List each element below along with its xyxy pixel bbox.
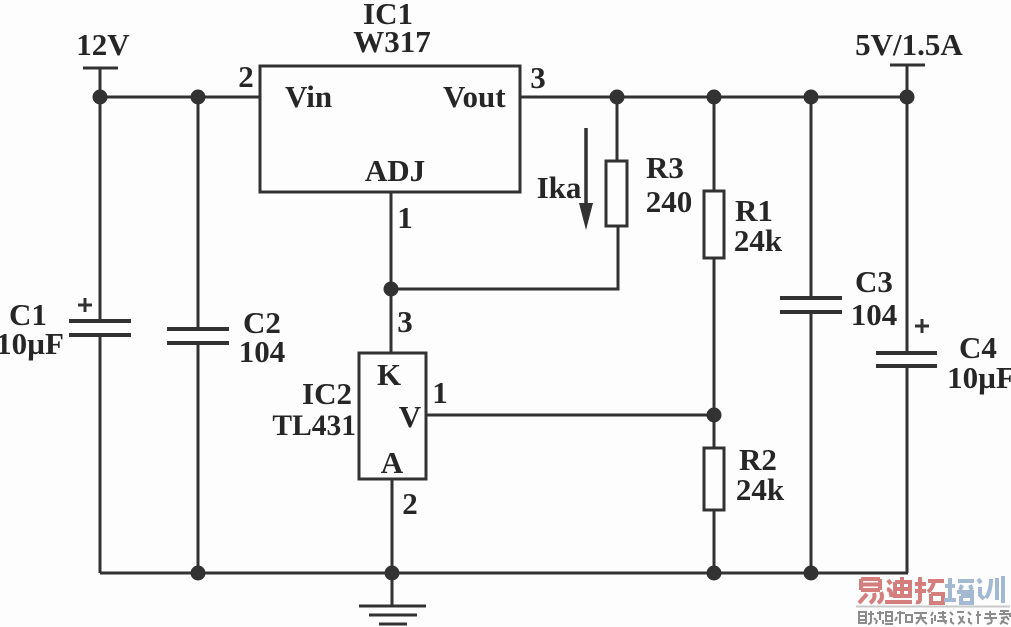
wire V pin to divider node	[426, 414, 714, 417]
label C2	[243, 305, 281, 340]
wire ADJ node to R3 bottom	[391, 226, 618, 289]
svg-text:104: 104	[239, 334, 286, 369]
label Ika	[537, 170, 582, 205]
wire A pin to ground rail	[391, 479, 394, 573]
label IC2	[302, 376, 352, 411]
watermark tagline zhuan	[984, 611, 997, 624]
resistor R2	[704, 415, 724, 573]
watermark logo	[856, 576, 1010, 624]
watermark tagline she2	[950, 612, 965, 624]
label 12V	[76, 27, 130, 62]
wire K pin	[390, 289, 393, 353]
pin number 2	[238, 59, 254, 94]
junction R2 ground	[707, 566, 722, 581]
label C1	[9, 297, 47, 332]
svg-text:12V: 12V	[76, 27, 130, 62]
svg-text:W317: W317	[353, 24, 431, 59]
label 10uF	[0, 326, 64, 361]
polarity + of C1	[78, 298, 92, 312]
wire ADJ pin	[390, 192, 393, 289]
watermark tagline ji	[968, 611, 981, 624]
ground	[359, 573, 426, 624]
wire C1 lower	[99, 337, 102, 573]
svg-text:TL431: TL431	[272, 410, 356, 442]
label 24k of R2	[736, 472, 785, 507]
label R2	[739, 442, 777, 477]
pin label V	[399, 399, 422, 434]
wire C4 branch upper	[906, 97, 909, 351]
node 5V output terminal	[890, 65, 925, 97]
watermark tagline he	[895, 611, 912, 624]
label IC1	[363, 0, 413, 31]
pin label Vout	[443, 79, 506, 114]
capacitor C2	[167, 329, 229, 343]
pin number 1 of IC1	[397, 200, 413, 235]
label 24k of R1	[734, 223, 783, 258]
svg-text:ADJ: ADJ	[365, 153, 425, 188]
polarity + of C4	[915, 319, 929, 333]
junction C1 branch	[93, 90, 108, 105]
svg-text:5V/1.5A: 5V/1.5A	[855, 27, 963, 62]
pin label Vin	[285, 79, 332, 114]
svg-text:24k: 24k	[734, 223, 783, 258]
svg-text:K: K	[377, 357, 401, 392]
label 5V/1.5A	[855, 27, 963, 62]
junction output terminal	[900, 90, 915, 105]
svg-text:V: V	[399, 399, 422, 434]
watermark char di (red)	[885, 577, 912, 602]
pin number 3 of IC2	[397, 304, 413, 339]
wire C3 branch upper	[810, 97, 813, 296]
junction R1 branch	[707, 90, 722, 105]
svg-text:24k: 24k	[736, 472, 785, 507]
label R1	[735, 193, 773, 228]
svg-text:104: 104	[851, 297, 898, 332]
label W317	[353, 24, 431, 59]
wire Vout output rail	[520, 96, 907, 99]
watermark tagline pin	[876, 611, 893, 624]
capacitor C1	[69, 321, 131, 335]
capacitor C4	[876, 353, 937, 366]
junction C2 ground	[191, 566, 206, 581]
pin label ADJ	[365, 153, 425, 188]
watermark tagline she	[859, 611, 876, 624]
junction C3 ground	[804, 566, 819, 581]
label TL431	[272, 410, 356, 442]
pin label K	[377, 357, 401, 392]
wire C1 branch upper	[99, 97, 102, 319]
label C4	[959, 330, 997, 365]
junction divider node	[707, 408, 722, 423]
svg-text:2: 2	[238, 59, 254, 94]
wire C2 lower	[197, 345, 200, 573]
watermark char tuo (red)	[915, 577, 944, 603]
current arrow Ika	[579, 128, 593, 230]
watermark char yi (red)	[859, 579, 882, 603]
shunt regulator IC2 TL431 body	[359, 353, 426, 479]
junction TL431 ground	[385, 566, 400, 581]
svg-text:Ika: Ika	[537, 170, 582, 205]
label R3	[646, 150, 684, 185]
label 240	[646, 184, 693, 219]
wire C3 lower	[810, 314, 813, 573]
wire ground rail	[100, 572, 908, 575]
svg-text:Vin: Vin	[285, 79, 332, 114]
label 104 of C3	[851, 297, 898, 332]
watermark tagline xian	[931, 611, 947, 624]
pin number 1 of IC2	[432, 375, 448, 410]
svg-text:1: 1	[432, 375, 448, 410]
resistor R1	[704, 97, 724, 415]
svg-text:1: 1	[397, 200, 413, 235]
svg-text:IC2: IC2	[302, 376, 352, 411]
capacitor C3	[780, 298, 842, 312]
watermark tagline jia	[999, 611, 1010, 624]
wire C2 branch upper	[197, 97, 200, 327]
watermark separator line	[856, 606, 1010, 608]
svg-text:240: 240	[646, 184, 693, 219]
svg-text:C3: C3	[855, 264, 893, 299]
svg-text:10µF: 10µF	[947, 360, 1011, 395]
watermark tagline tian	[914, 613, 927, 624]
junction C3 branch	[804, 90, 819, 105]
svg-text:A: A	[381, 445, 404, 480]
junction C2 branch	[191, 90, 206, 105]
svg-text:2: 2	[402, 486, 418, 521]
label 10uF of C4	[947, 360, 1011, 395]
watermark char xun (blue)	[978, 576, 1003, 603]
svg-text:3: 3	[397, 304, 413, 339]
junction ADJ node	[384, 282, 399, 297]
svg-text:R3: R3	[646, 150, 684, 185]
node 12V input terminal	[83, 68, 118, 97]
pin label A	[381, 445, 404, 480]
pin number 3 of IC1	[530, 60, 546, 95]
label C3	[855, 264, 893, 299]
junction R3 branch	[610, 90, 625, 105]
watermark char pei (blue)	[944, 578, 974, 603]
svg-text:3: 3	[530, 60, 546, 95]
label 104 of C2	[239, 334, 286, 369]
regulator IC1 W317 body	[260, 66, 520, 192]
wire C4 lower	[906, 368, 909, 573]
wire input rail to Vin	[100, 96, 260, 99]
resistor R3	[606, 97, 627, 226]
svg-text:10µF: 10µF	[0, 326, 64, 361]
pin number 2 of IC2	[402, 486, 418, 521]
svg-text:Vout: Vout	[443, 79, 506, 114]
